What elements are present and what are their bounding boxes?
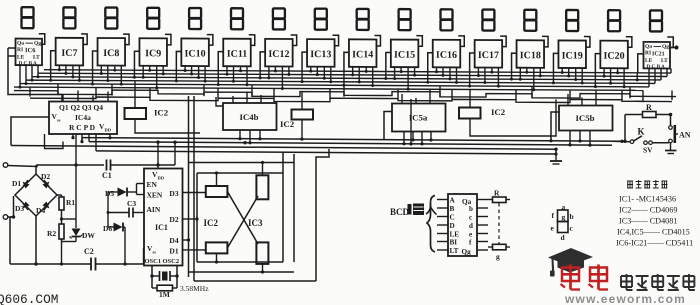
svg-text:IC13: IC13 — [310, 49, 331, 60]
IC16 bottom pins to bus — [435, 67, 458, 84]
wire: IC14 bracket drop — [343, 71, 345, 85]
dashed repeat line — [498, 203, 500, 244]
IC14 box — [349, 39, 377, 67]
svg-text:RI: RI — [645, 50, 651, 56]
IC18 bottom pins to bus — [519, 68, 542, 92]
bus wire b3 — [32, 77, 661, 80]
svg-text:IC2: IC2 — [154, 108, 169, 118]
svg-text:D2: D2 — [169, 215, 178, 224]
wire: display hook above IC20 — [626, 37, 632, 48]
resistor 1M — [152, 285, 177, 299]
svg-text:D4: D4 — [36, 206, 45, 215]
wire: display hook above IC17 — [500, 36, 506, 47]
svg-text:IC3—— CD4081: IC3—— CD4081 — [619, 217, 677, 226]
wire: vertical x=194 bus to bottom — [193, 96, 195, 281]
AC input terminal 2 — [3, 215, 8, 220]
IC21 bottom pins to bus — [649, 68, 667, 87]
rail left risers from IC4a pins — [82, 134, 89, 142]
junction dots on rails — [173, 140, 623, 151]
diode bridge D1-D4 — [15, 174, 57, 216]
display DS5 (7-segment digit) — [189, 8, 201, 29]
wire: left pin bracket of IC10 — [176, 51, 181, 70]
svg-text:IC1: IC1 — [155, 223, 168, 232]
capacitor C3 — [107, 199, 145, 218]
wire: display hook above IC19 — [584, 37, 590, 48]
wire: display hook above IC11 — [249, 35, 255, 46]
IC4a top pins Q1-Q4 — [63, 91, 108, 102]
IC1 box (MC145436) — [144, 169, 183, 266]
svg-text:g: g — [496, 252, 500, 261]
wire: IC17 bracket drop — [469, 72, 471, 86]
wire: inner rect top y=173 — [197, 172, 283, 174]
resistor R (segment) — [488, 189, 510, 203]
wire: left pin bracket of IC7 — [51, 51, 56, 70]
wire: left pin bracket of IC14 — [344, 52, 349, 71]
wire: IC8 bracket drop — [92, 70, 94, 84]
IC15 bottom pins to bus — [393, 67, 416, 91]
component list text — [616, 195, 693, 248]
IC4b top pins — [216, 92, 261, 107]
display DS4 (7-segment digit) — [147, 8, 159, 29]
wire: IC19 bracket drop — [552, 72, 554, 83]
svg-text:Qg: Qg — [34, 41, 41, 47]
wire: IC13 bracket drop — [301, 71, 303, 82]
wire: D2 to inner rect — [183, 218, 198, 220]
IC9 box — [139, 38, 167, 66]
svg-text:C1: C1 — [102, 171, 112, 180]
wire: D1 to gate — [183, 249, 206, 251]
display DS12 (7-segment digit) — [482, 10, 494, 31]
IC17 box — [475, 40, 503, 68]
svg-text:SV: SV — [643, 146, 653, 155]
display DS6 (7-segment digit) — [231, 8, 243, 29]
IC4a VDD pin drop x=110 — [109, 134, 111, 138]
svg-text:D4: D4 — [169, 236, 178, 245]
svg-text:IC7: IC7 — [61, 48, 77, 59]
svg-text:A: A — [450, 197, 456, 205]
svg-text:IC2: IC2 — [204, 218, 219, 228]
IC21 (CD5411 BCD-7seg decoder) box — [644, 42, 671, 70]
svg-text:Q1 Q2 Q3 Q4: Q1 Q2 Q3 Q4 — [59, 103, 103, 112]
display DS8 (7-segment digit) — [315, 9, 327, 30]
heading main components (Chinese) — [627, 180, 667, 188]
wire: outer right x=316 with jog — [316, 149, 329, 281]
svg-text:IC11: IC11 — [227, 49, 248, 60]
wire: mid rect right x=294 — [293, 154, 295, 262]
wire: left pin bracket of IC15 — [386, 53, 391, 72]
svg-text:D5: D5 — [105, 189, 114, 198]
IC19 bottom pins to bus — [561, 68, 584, 85]
rail wire r4 — [96, 151, 556, 154]
IC5b left bracket — [551, 112, 559, 141]
svg-text:g: g — [562, 213, 566, 222]
svg-text:D: D — [450, 222, 455, 230]
svg-text:RI: RI — [17, 47, 23, 53]
svg-text:R1: R1 — [66, 198, 75, 207]
svg-text:IC8: IC8 — [103, 48, 119, 59]
svg-text:3.58MHz: 3.58MHz — [180, 284, 209, 293]
wire: display hook above IC10 — [207, 35, 213, 46]
wire: cross diagonal 1 — [227, 192, 258, 245]
rail wire r3 — [11, 146, 556, 150]
svg-text:IC17: IC17 — [478, 50, 499, 61]
logo chongchong (red worm chars) — [561, 265, 609, 290]
wire: IC9 bracket drop — [133, 70, 135, 77]
inverter gate IC2-b small box — [292, 93, 314, 141]
svg-text:LT: LT — [450, 247, 459, 255]
logo site name (Chinese, drawn strokes) — [621, 274, 695, 290]
crystal 3.58MHz — [150, 266, 209, 294]
wire: riser x=175 rail to C1 wire — [174, 142, 176, 165]
wire: left pin bracket of IC11 — [218, 52, 223, 71]
brace for BCD inputs — [427, 196, 435, 253]
IC19 box — [558, 40, 586, 68]
resistor (segment g) — [488, 244, 510, 261]
resistor R1 — [57, 195, 75, 224]
svg-text:R: R — [646, 103, 652, 112]
svg-text:D1: D1 — [169, 247, 178, 256]
IC6 bottom pins to bus — [19, 65, 40, 89]
bus right end risers — [634, 68, 671, 101]
wire: left pin bracket of IC21 — [638, 54, 643, 73]
ground at x=556 — [550, 149, 562, 164]
svg-text:D3: D3 — [169, 189, 178, 198]
display DS9 (7-segment digit) — [357, 9, 369, 30]
svg-text:IC4,IC5—— CD4015: IC4,IC5—— CD4015 — [617, 228, 690, 237]
wire: IC18 bracket drop — [511, 72, 513, 79]
svg-text:D6: D6 — [103, 224, 112, 233]
wire: display hook above IC14 — [374, 35, 380, 46]
wire: display hook above IC9 — [165, 34, 171, 45]
IC15 box — [391, 40, 419, 68]
resistor R2 — [47, 224, 64, 242]
IC9 bottom pins to bus — [142, 66, 165, 90]
wire: IC16 bracket drop — [427, 72, 429, 83]
IC18 box — [517, 40, 545, 68]
wire: D3 to gate — [183, 192, 206, 194]
IC13 bottom pins to bus — [309, 67, 332, 84]
svg-text:XEN: XEN — [147, 191, 163, 200]
IC12 box — [265, 39, 293, 67]
wire: left pin bracket of IC20 — [595, 54, 600, 73]
wire: vertical x=76 from IC4a area to DW — [74, 134, 77, 219]
IC5a bottom pins — [402, 132, 432, 146]
display DS2 (7-segment digit) — [63, 7, 75, 28]
svg-text:OSC1: OSC1 — [145, 258, 162, 265]
svg-text:IC6-IC21—— CD5411: IC6-IC21—— CD5411 — [616, 239, 693, 248]
IC4a box (CD4015) — [49, 102, 117, 135]
wire: IC12 bracket drop — [259, 71, 261, 78]
svg-text:c: c — [469, 214, 472, 222]
routing jogs below bus — [14, 84, 676, 104]
wire: mid rect top y=162.5 — [189, 162, 295, 164]
wire: cross diagonal 2 — [227, 196, 258, 248]
svg-text:D3: D3 — [15, 204, 24, 213]
svg-text:e: e — [469, 231, 472, 239]
display DS3 (7-segment digit) — [105, 8, 117, 29]
svg-text:b: b — [570, 212, 574, 221]
wire: IC6 left pins to x=8 — [8, 48, 16, 56]
svg-text:D C B A: D C B A — [19, 61, 38, 67]
wire: display hook above IC12 — [291, 35, 297, 46]
wire: IC10 bracket drop — [175, 70, 177, 81]
seven segment legend — [551, 203, 574, 243]
svg-text:ss: ss — [57, 118, 61, 123]
IC11 bottom pins to bus — [226, 66, 249, 86]
wire: vertical drop x=8 (IC6 area) — [8, 56, 62, 102]
svg-text:AN: AN — [679, 131, 691, 140]
svg-text:LE: LE — [450, 231, 460, 239]
svg-text:IC6: IC6 — [25, 47, 36, 54]
wire: EN/XEN bracket — [137, 184, 145, 195]
wire: outer loop left x=188.5 — [188, 96, 190, 277]
bus wire b5 — [20, 84, 649, 87]
wire: outer bottom y=281 — [194, 280, 316, 282]
svg-text:BI: BI — [450, 239, 458, 247]
svg-text:BCD: BCD — [390, 207, 410, 217]
IC20 box — [600, 41, 628, 69]
wire: bottom rail up to IC1 Vss — [143, 249, 146, 264]
label BCD input (Chinese) — [390, 204, 437, 218]
wire: left pin bracket of IC9 — [134, 51, 139, 70]
IC8 bottom pins to bus — [100, 66, 123, 86]
IC5a box (CD4015) — [392, 104, 446, 132]
svg-text:IC5b: IC5b — [575, 113, 594, 123]
AC input terminal 1 — [3, 163, 8, 168]
inverter gate IC2-c small box — [459, 90, 556, 137]
svg-text:IC2—— CD4069: IC2—— CD4069 — [619, 206, 677, 215]
svg-text:IC20: IC20 — [604, 51, 625, 62]
wire: mid rect bottom y=272 — [189, 271, 295, 273]
svg-text:Qg: Qg — [462, 248, 472, 256]
svg-text:www.eeworm.com: www.eeworm.com — [564, 292, 686, 305]
svg-text:IC18: IC18 — [520, 50, 541, 61]
svg-text:IC2: IC2 — [491, 107, 506, 117]
svg-text:OSC2: OSC2 — [163, 258, 180, 265]
wire: left pin bracket of IC8 — [93, 51, 98, 70]
svg-text:AIN: AIN — [147, 205, 161, 214]
bus wire b1 — [44, 70, 671, 73]
svg-text:b: b — [469, 205, 473, 213]
display DS7 (7-segment digit) — [273, 8, 285, 29]
IC17 bottom pins to bus — [477, 67, 500, 87]
capacitor C1 — [102, 160, 158, 181]
bus wire b4 — [26, 80, 655, 83]
IC5a left bracket — [384, 112, 392, 140]
IC11 box — [223, 39, 251, 67]
svg-text:DD: DD — [158, 176, 165, 181]
IC16 box — [433, 40, 461, 68]
wire: left pin bracket of IC19 — [553, 53, 558, 72]
display DS16 (7-segment digit) — [650, 10, 662, 31]
wire: VDD junction to IC1 — [156, 140, 175, 168]
svg-text:C3: C3 — [127, 199, 136, 208]
svg-text:IC19: IC19 — [562, 50, 583, 61]
svg-text:IC2: IC2 — [280, 119, 295, 129]
svg-text:ss: ss — [153, 250, 157, 255]
wire: display hook above IC6 — [39, 34, 45, 45]
bus wire b2 — [38, 73, 667, 76]
IC7 bottom pins to bus — [58, 65, 81, 82]
svg-text:Qg: Qg — [662, 44, 669, 50]
wire: terminal1 to C1 rail — [8, 165, 104, 167]
display DS11 (7-segment digit) — [441, 9, 453, 30]
svg-text:IC21: IC21 — [652, 51, 665, 57]
inverter gate IC2-a small box — [125, 81, 201, 134]
resistor R (top right) — [623, 103, 672, 143]
wire: display hook above IC16 — [458, 36, 464, 47]
wire: left pin bracket of IC17 — [470, 53, 475, 72]
IC8 box — [98, 38, 126, 66]
wire: display hook above IC8 — [123, 34, 129, 45]
bus wire b6 — [14, 87, 643, 90]
display DS15 (7-segment digit) — [608, 10, 620, 31]
svg-text:IC10: IC10 — [185, 48, 206, 59]
gate IC2-e box — [206, 242, 228, 263]
svg-text:B: B — [450, 205, 455, 213]
IC7 box — [56, 38, 84, 66]
svg-text:C2: C2 — [84, 247, 94, 256]
wire: D5-D6 left vertical — [107, 192, 109, 227]
IC5b top pins — [568, 90, 596, 106]
diode D6 — [103, 223, 127, 266]
BCD decoder demo box — [437, 194, 488, 256]
svg-text:DW: DW — [82, 231, 95, 240]
svg-text:IC1- -MC145436: IC1- -MC145436 — [619, 195, 676, 204]
svg-text:D2: D2 — [41, 172, 50, 181]
wire: display hook above IC21 — [667, 37, 673, 48]
wire: terminal2 to bridge — [8, 196, 15, 264]
zener diode DW — [60, 217, 96, 241]
display DS14 (7-segment digit) — [566, 10, 578, 31]
IC5b box (CD4015) — [559, 106, 613, 131]
wire: bridge top to AC rail — [35, 165, 37, 174]
svg-text:R: R — [494, 189, 500, 198]
svg-text:IC9: IC9 — [145, 48, 161, 59]
gate IC3-a box (vertical) — [256, 161, 268, 199]
display DS13 (7-segment digit) — [524, 10, 536, 31]
wire: D4 to outer rect — [183, 239, 189, 241]
wire: R2/DW bottom to ground rail — [60, 242, 76, 266]
IC13 box — [307, 39, 335, 67]
svg-text:D1: D1 — [12, 179, 21, 188]
gate IC2-d box — [206, 171, 228, 197]
svg-text:IC3: IC3 — [248, 218, 263, 228]
wire: left pin bracket of IC12 — [260, 52, 265, 71]
wire: K wire from rail to switch — [612, 140, 630, 142]
svg-text:IC4a: IC4a — [75, 113, 91, 122]
svg-text:EN: EN — [147, 180, 158, 189]
IC4a bottom pins R,C,P,D — [45, 134, 97, 151]
IC12 bottom pins to bus — [267, 66, 290, 90]
wire: inner rect left x=197 — [196, 173, 198, 262]
rail wire r1 — [82, 138, 622, 142]
IC14 bottom pins to bus — [351, 67, 374, 87]
IC10 box — [181, 38, 209, 66]
bottom rail with C2 — [10, 247, 144, 271]
wire: IC7 bracket drop — [50, 70, 52, 81]
wire: display hook above IC18 — [542, 36, 548, 47]
IC10 bottom pins to bus — [184, 66, 207, 83]
wire: bridge bottom down — [35, 216, 37, 264]
wire: inner rect right x=283 — [282, 152, 284, 262]
wire: riser x=411 bus to rail — [410, 99, 412, 144]
display DS1 (7-segment digit) — [22, 7, 34, 28]
svg-text:K: K — [638, 127, 645, 137]
svg-text:R C P D: R C P D — [69, 123, 96, 132]
svg-text:Qa: Qa — [645, 44, 652, 50]
diode D5 — [105, 188, 137, 199]
svg-text:IC12: IC12 — [268, 49, 289, 60]
display DS10 (7-segment digit) — [399, 9, 411, 30]
wire: left pin bracket of IC13 — [302, 52, 307, 71]
svg-text:IC4b: IC4b — [239, 112, 258, 122]
wire: IC11 bracket drop — [217, 71, 219, 85]
wire: display hook above IC13 — [333, 35, 339, 46]
IC5b bottom pins — [568, 131, 591, 147]
svg-text:Qa: Qa — [17, 41, 24, 47]
svg-text:R2: R2 — [47, 229, 56, 238]
svg-text:Q606.COM: Q606.COM — [0, 292, 58, 305]
svg-text:1M: 1M — [159, 290, 170, 299]
IC21 output wire with terminal — [670, 46, 679, 50]
svg-text:IC16: IC16 — [436, 50, 457, 61]
svg-text:d: d — [469, 222, 473, 230]
svg-text:C: C — [450, 214, 455, 222]
push button AN — [669, 115, 691, 144]
IC5a top pins — [402, 89, 430, 104]
IC6 (CD5411 BCD-7seg decoder) box — [16, 39, 43, 67]
svg-text:IC15: IC15 — [394, 50, 415, 61]
wire: IC21 bracket drop — [636, 73, 638, 80]
wire: left pin bracket of IC16 — [428, 53, 433, 72]
IC4b box (CD4015) — [223, 103, 277, 130]
rail wire r2 — [89, 142, 612, 146]
wire: inner rect bottom y=262 — [197, 261, 283, 263]
svg-text:DD: DD — [105, 128, 112, 133]
wire: IC20 bracket drop — [594, 73, 596, 87]
IC4b bottom pins — [238, 130, 261, 144]
gate IC3-b box (vertical) — [256, 242, 268, 273]
wire: IC15 bracket drop — [385, 72, 387, 79]
switch K with SV contacts — [630, 127, 669, 155]
IC20 bottom pins to bus — [603, 68, 626, 88]
svg-text:IC14: IC14 — [352, 49, 373, 60]
wire: left pin bracket of IC18 — [512, 53, 517, 72]
ground under AN — [665, 143, 677, 154]
wire: display hook above IC7 — [81, 34, 87, 45]
IC4a Vss pin wire to left rail — [11, 117, 49, 146]
logo graduation cap — [548, 248, 593, 277]
wire: display hook above IC15 — [416, 36, 422, 47]
